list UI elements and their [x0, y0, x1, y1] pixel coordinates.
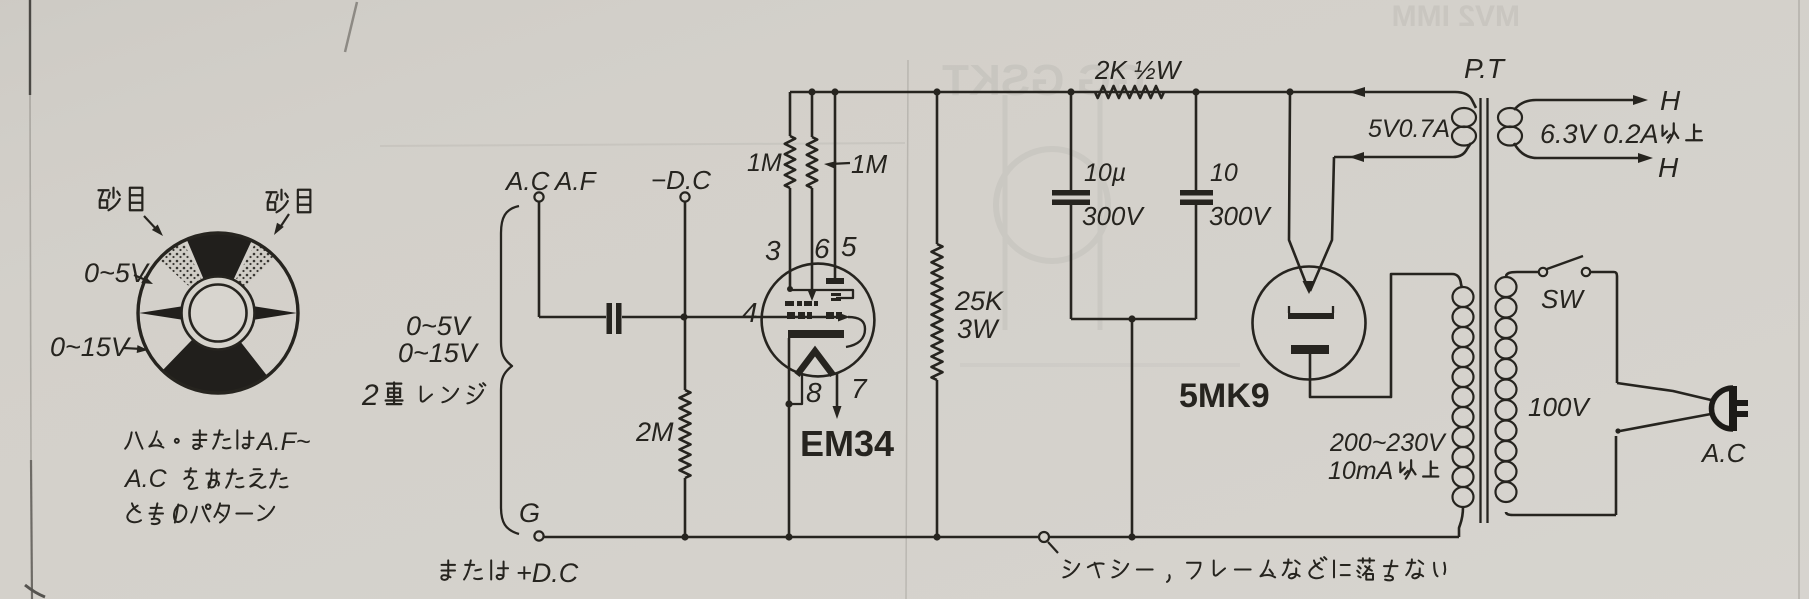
EM34 anode bracket [790, 290, 853, 298]
svg-text:A.C: A.C [123, 465, 168, 493]
resistor 1M a [785, 136, 795, 188]
svg-text:SW: SW [1541, 284, 1585, 314]
junction at -D.C line [680, 313, 687, 320]
svg-text:3W: 3W [957, 314, 1000, 344]
svg-text:0~15V: 0~15V [50, 332, 132, 362]
svg-text:6.3V 0.2A: 6.3V 0.2A [1540, 119, 1659, 149]
label 砂目 (right) with arrow [267, 190, 288, 213]
HV winding bottom lead [1459, 507, 1463, 537]
EM34 pin 5 electrode [826, 278, 844, 284]
EM34 target chevron [797, 351, 833, 375]
caption line 1 ハム・または A.F~ [125, 432, 142, 448]
svg-text:P.T: P.T [1464, 53, 1506, 84]
AC plug body [1712, 388, 1734, 429]
EM34 pin 4 arrow and hook [838, 313, 850, 322]
100V bottom lead [1506, 512, 1616, 515]
capacitor C2 10 300V [1180, 190, 1213, 196]
svg-text:2: 2 [361, 379, 379, 412]
EM34 pin 7 lead [836, 372, 839, 407]
wire bus to C1 [1070, 92, 1073, 190]
chassis float terminal [1039, 532, 1049, 542]
terminal -D.C [680, 192, 689, 201]
svg-text:0~15V: 0~15V [398, 338, 480, 368]
label 砂目 (left) with arrow [99, 188, 120, 211]
label または+D.C [441, 560, 455, 579]
resistor 25K 3W [932, 244, 943, 380]
wire 2M to ground bus [684, 478, 687, 537]
switch SW contact left [1539, 268, 1547, 276]
switch SW blade [1547, 256, 1583, 269]
coupling capacitor [607, 303, 613, 334]
svg-text:2M: 2M [635, 417, 674, 447]
wire bus to pin 5 [834, 92, 837, 279]
terminal G [534, 531, 543, 540]
100V winding [1496, 277, 1517, 297]
svg-text:+D.C: +D.C [516, 558, 579, 588]
6.3V winding [1498, 108, 1522, 127]
svg-text:25K: 25K [954, 286, 1004, 316]
EM34 pin 8 link [789, 374, 802, 404]
wire capacitor to EM34 pin 4 [622, 316, 845, 319]
wire bus to C2 [1195, 92, 1198, 190]
wire bus to R 1M a [789, 92, 792, 136]
EM34 pin 8 to bus [788, 404, 791, 537]
HV winding 200~230V [1453, 287, 1474, 307]
junction bus pin5 [831, 88, 838, 95]
tube 5MK9 envelope [1253, 267, 1366, 380]
svg-text:H: H [1660, 85, 1681, 116]
5V 0.7A winding [1452, 108, 1476, 127]
svg-text:10µ: 10µ [1084, 159, 1126, 187]
capacitor C1 10u 300V [1052, 190, 1090, 196]
100V top lead [1506, 272, 1538, 277]
wire 1M b to pin 6 [811, 188, 814, 296]
svg-text:0~5V: 0~5V [84, 258, 151, 288]
svg-text:2K ½W: 2K ½W [1094, 55, 1183, 85]
svg-text:0~5V: 0~5V [406, 311, 473, 341]
tube EM34 envelope [762, 264, 875, 377]
wire 25K to bus [936, 380, 939, 537]
caption line 3 ときのパターン [127, 503, 141, 522]
6.3V bottom lead to H [1514, 143, 1639, 158]
ground bus [543, 536, 1459, 539]
heater wire from 5V winding [1334, 143, 1471, 157]
EM34 cathode bar [788, 330, 844, 338]
svg-text:5: 5 [841, 231, 857, 262]
resistor 2M [680, 390, 691, 478]
heater wire arrow [1349, 152, 1364, 162]
wire 1M a to pin 3 [789, 188, 792, 289]
wire A.C down [538, 202, 541, 318]
wire C2 down [1195, 205, 1198, 319]
svg-text:5V0.7A: 5V0.7A [1368, 115, 1450, 143]
5MK9 plate [1288, 313, 1334, 319]
junction bus 25K [933, 88, 940, 95]
terminal A.C [534, 192, 543, 201]
svg-text:H: H [1658, 152, 1679, 183]
wire -D.C down [684, 202, 687, 391]
range brace [501, 206, 519, 534]
wire bus to 25K [936, 92, 939, 244]
junction pin8-bus [785, 533, 792, 540]
svg-text:1M: 1M [747, 149, 782, 177]
wire C1 down [1070, 205, 1073, 319]
svg-text:200~230V: 200~230V [1329, 429, 1447, 457]
junction bus C1 [1067, 88, 1074, 95]
EM34 pin 3 junction dot [787, 286, 793, 292]
EM34 grid marks on pin4 line [787, 312, 795, 319]
6.3V top lead to H [1514, 100, 1634, 110]
note シャシー，フレームなどに落さない [1063, 561, 1079, 578]
transformer core [1479, 98, 1481, 523]
5MK9 cathode bar [1291, 345, 1329, 354]
svg-text:3: 3 [765, 235, 781, 266]
5MK9 filament lead right [1310, 157, 1334, 291]
svg-text:G: G [519, 498, 540, 528]
svg-text:4: 4 [742, 297, 758, 328]
EM34 pin 6 arrow [808, 291, 816, 301]
svg-text:A.F: A.F [553, 166, 598, 196]
resistor 2K 1/2W [1095, 86, 1164, 98]
svg-text:5MK9: 5MK9 [1179, 377, 1270, 415]
svg-text:300V: 300V [1082, 201, 1145, 231]
cord top to plug [1617, 383, 1711, 400]
junction 2M-bus [681, 533, 688, 540]
svg-text:300V: 300V [1209, 201, 1272, 231]
magic-eye pattern diagram [138, 233, 298, 393]
svg-text:A.F~: A.F~ [255, 428, 311, 456]
wire switch to corner [1590, 272, 1617, 383]
wire plug corner down [1615, 436, 1618, 515]
junction bus 1M b [808, 88, 815, 95]
wire C1-C2 link [1071, 318, 1196, 321]
wire bus to R 1M b [811, 92, 814, 137]
junction filter-bus [1128, 533, 1135, 540]
junction 25K-bus [933, 533, 940, 540]
switch SW contact right [1582, 268, 1590, 276]
svg-text:7: 7 [851, 373, 868, 404]
wire A.C to capacitor [539, 316, 606, 319]
EM34 cathode lead [788, 338, 791, 404]
resistor 1M b [807, 137, 817, 188]
svg-text:10: 10 [1210, 159, 1238, 187]
5MK9 filament arrowhead [1303, 281, 1316, 294]
B+ bus [790, 92, 1476, 108]
svg-text:EM34: EM34 [800, 423, 894, 464]
5MK9 filament lead left [1289, 92, 1309, 291]
svg-text:10mA: 10mA [1328, 457, 1393, 485]
5MK9 cathode lead [1310, 274, 1462, 397]
svg-text:MV2 IMM: MV2 IMM [1392, 0, 1520, 33]
svg-text:A.C: A.C [504, 166, 550, 196]
junction bus C2 [1192, 88, 1199, 95]
junction bus 5MK9 [1286, 88, 1293, 95]
svg-text:8: 8 [806, 377, 822, 408]
bus arrow toward EM34 [1349, 87, 1365, 97]
svg-text:100V: 100V [1528, 392, 1591, 422]
svg-text:6: 6 [814, 233, 830, 264]
svg-text:1M: 1M [851, 149, 887, 179]
EM34 electrode marks [831, 293, 841, 296]
cord bottom to plug [1620, 414, 1711, 431]
svg-text:−D.C: −D.C [651, 165, 711, 195]
wire filter link to bus [1131, 319, 1134, 537]
junction filter link [1128, 315, 1135, 322]
svg-text:A.C: A.C [1700, 438, 1746, 468]
